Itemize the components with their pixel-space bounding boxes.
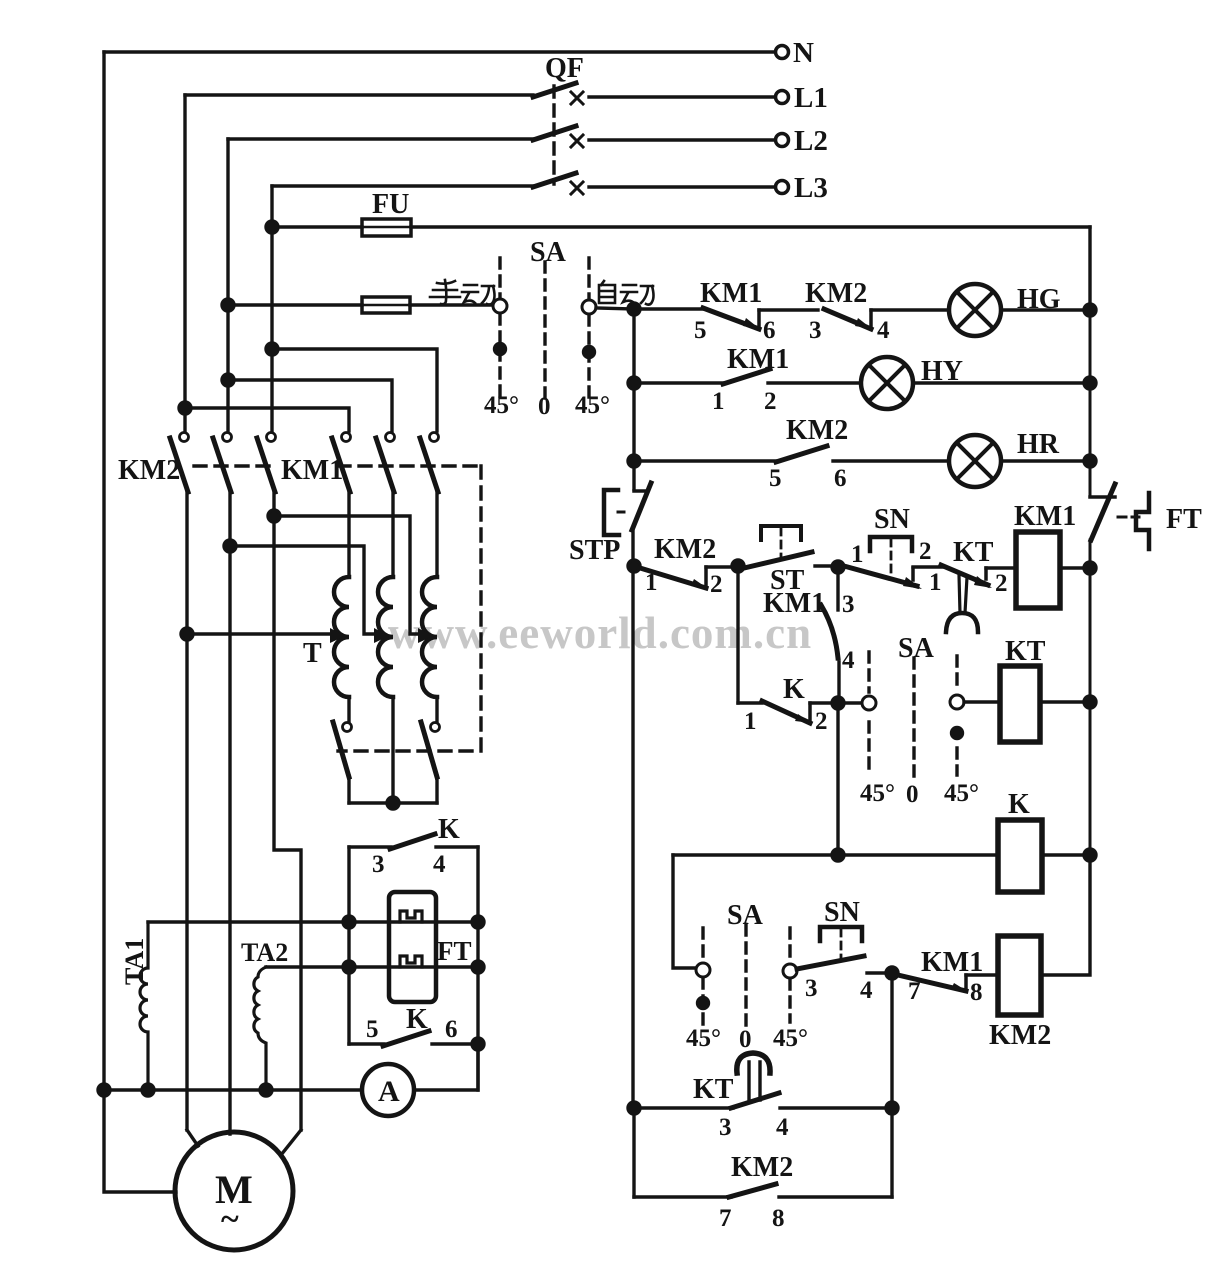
node SA row3 position dot [698,998,709,1009]
thermal relay FT heater block [389,892,436,1002]
contactor KM1 main pole c [430,433,439,442]
wire L3 horizontal right [589,185,776,188]
svg-text:1: 1 [929,569,942,596]
contactor KM2 main pole 1 [180,433,189,442]
wire tap C to coil1 with arrow [187,632,330,635]
svg-text:4: 4 [776,1114,789,1141]
svg-text:8: 8 [772,1205,785,1232]
star contact 2 [431,723,440,732]
wire L2 horizontal right [589,138,776,141]
svg-text:KM1: KM1 [763,588,825,619]
svg-text:www.eeworld.com.cn: www.eeworld.com.cn [388,608,812,658]
breaker QF linkage dashed [552,86,555,184]
selector SA row2 dashed right [955,656,958,775]
svg-text:SN: SN [874,504,910,535]
selector SA row2 left contact [862,696,876,710]
node TA2 bottom [260,1084,272,1096]
coil KT [1000,666,1040,742]
coil K [998,820,1042,892]
contact KM1 aux 3-4 vertical [836,567,839,610]
wire KM2 pole1 output vertical [185,491,188,1130]
selector SA dashed manual [498,258,501,398]
node L2 to fuse2 [222,299,234,311]
linkage dashed KM2-KM1 [194,464,481,467]
node L2 terminal [776,134,789,147]
selector SA dashed auto [587,258,590,398]
node tap wire C on phase1 [181,628,193,640]
star contact 1 [343,723,352,732]
wire coil1 bottom to star contact [347,697,350,722]
svg-text:HR: HR [1017,429,1060,460]
svg-text:KM1: KM1 [281,455,343,486]
svg-text:QF: QF [545,53,584,84]
selector SA row2 dashed centre [912,658,915,779]
svg-text:45°: 45° [484,392,519,419]
wire KM1 pole a to coil 1 [347,491,350,577]
contact K 1-2 row [738,701,762,704]
wire between KM1 5-6 and KM2 3-4 [759,308,818,311]
wire ST to SN junction [815,564,838,567]
svg-text:KM2: KM2 [989,1020,1051,1051]
selector SA row3 left contact [696,963,710,977]
contact KM2 aux 5-6 [776,446,827,462]
svg-text:KM2: KM2 [654,534,716,565]
svg-text:KT: KT [953,537,994,568]
wire HY to right rail [913,381,1090,384]
wire coil3 bottom to star contact [435,697,438,722]
wire KM2 pole3 output vertical [274,491,301,1130]
wire TA2 to FT heater row2 [266,965,478,968]
transformer T coil 1 [334,577,349,697]
coil KM2 [998,936,1041,1015]
svg-text:45°: 45° [944,780,979,807]
node tap wire A on phase3 [268,510,280,522]
breaker QF pole 2 [533,126,576,140]
wire branch L3 to KM1 pole c [272,349,437,431]
wire KT to KM1 coil [986,566,1016,569]
contact KM1 aux 1-2 [723,369,770,384]
contact KM1 aux 5-6 [703,308,759,329]
wire to lamp HG [871,308,949,311]
svg-text:FU: FU [372,189,409,220]
svg-text:6: 6 [834,465,847,492]
node HG right rail [1084,304,1096,316]
breaker QF pole 3 [533,173,576,187]
svg-text:3: 3 [805,975,818,1002]
linkage dashed box right side [338,466,481,751]
wire coil2 bottom to bar [391,697,394,803]
selector SA row2 right contact [950,695,964,709]
node heater row2 left [343,961,355,973]
wire phase3 into motor [281,1130,301,1155]
node row3 on control bus [628,455,640,467]
contact KT 1-2 delayed NO [941,565,988,585]
svg-text:STP: STP [569,535,620,566]
wire fuse2 row [228,303,492,306]
wire HR to right rail [1001,459,1090,462]
wire TA1 to FT heater row1 [148,920,478,923]
node L3 to FU rail [266,221,278,233]
wire SN to KT contact [913,565,944,568]
wire N top horizontal [104,50,776,53]
node tap wire B on phase2 [224,540,236,552]
svg-text:KM1: KM1 [727,344,789,375]
wire star contact2 to bar [435,776,438,803]
wire L1 horizontal left [185,93,533,96]
contact KM1 aux 7-8 [898,975,966,991]
selector SA row3 dashed centre [744,925,747,1028]
motor M [175,1132,293,1250]
svg-text:SA: SA [530,237,567,268]
svg-text:7: 7 [908,978,921,1005]
svg-text:L1: L1 [794,82,828,114]
svg-text:N: N [793,37,814,69]
limit switch SN actuator row3 [820,927,862,941]
wire junction to SA row2 left contact [838,701,862,704]
wire KT row right down [890,1108,893,1197]
svg-text:K: K [438,814,460,845]
svg-text:KM1: KM1 [1014,501,1076,532]
node heater row1 right [472,916,484,928]
svg-text:2: 2 [710,571,723,598]
svg-text:0: 0 [538,393,551,420]
svg-text:6: 6 [445,1016,458,1043]
contact SN 1-2 blade [844,566,917,586]
svg-text:6: 6 [763,317,776,344]
svg-text:K: K [406,1004,428,1035]
svg-text:KT: KT [693,1074,734,1105]
coil KM1 [1016,532,1060,608]
node star point [387,797,399,809]
breaker QF pole 1 [533,83,576,97]
wire L2 horizontal left [228,137,533,140]
svg-text:KM1: KM1 [700,278,762,309]
svg-text:3: 3 [842,591,855,618]
wire HG to right rail [1001,308,1090,311]
svg-text:4: 4 [860,977,873,1004]
node TA1 bottom [142,1084,154,1096]
wire to lamp HR [833,459,949,462]
wire KM2 pole2 output vertical [228,491,231,1134]
svg-text:1: 1 [851,541,864,568]
KT delay device symbol [959,575,967,613]
contactor KM2 main pole 3 [267,433,276,442]
node row2 on control bus [628,377,640,389]
wire L1 horizontal right [589,95,776,98]
FT heater actuator [1136,493,1149,549]
svg-text:1: 1 [712,388,725,415]
svg-text:KT: KT [1005,636,1046,667]
svg-text:1: 1 [645,569,658,596]
wire auto contact to control bus [596,308,634,309]
svg-text:4: 4 [842,647,855,674]
wire branch L1 to KM1 pole a [185,408,349,431]
wire KM2 coil to right rail corner [1041,855,1090,975]
node N terminal [776,46,789,59]
wire K row down to SA row3 [673,855,696,968]
wire KM1 7-8 to KM2 coil [966,973,998,976]
svg-text:4: 4 [433,851,446,878]
wire N bus left vertical [102,52,105,1090]
svg-text:5: 5 [694,317,707,344]
wire KT coil to right rail [1040,700,1090,703]
contact K 5-6 row [349,1042,384,1045]
selector SA row2 dashed left [867,652,870,776]
fuse FU2 [362,297,410,313]
wire FU rail [272,225,1090,228]
svg-text:4: 4 [877,317,890,344]
wire tap B to coil2 with arrow [230,546,374,634]
svg-text:45°: 45° [773,1025,808,1052]
wire KM1 pole c to coil 3 [435,491,438,577]
wire branch L2 to KM1 pole b [228,380,392,431]
svg-text:T: T [303,638,322,669]
contact KM2 aux 1-2 [640,568,706,588]
wire row1 to KM1 aux 5-6 [634,307,703,310]
svg-text:5: 5 [769,465,782,492]
contact KM2 aux 7-8 row [634,1195,731,1198]
current transformer TA2 [254,967,266,1090]
contactor KM1 main pole a [342,433,351,442]
wire K4 right vertical rail [476,847,479,1090]
lamp HG [949,284,1001,336]
wire ammeter loop bottom [104,1044,478,1090]
svg-text:FT: FT [1166,504,1202,535]
node KM1 7-8 left [886,967,898,979]
wire L2 bus vertical [226,139,229,431]
node heater row1 left [343,916,355,928]
wire row3 to KM2 aux 5-6 [634,459,776,462]
node control bus top [628,303,640,315]
svg-text:~: ~ [221,1201,239,1238]
wire right rail below FT [1089,310,1092,975]
node control bus KT row [628,1102,640,1114]
node SA manual position dot [495,344,506,355]
wire L1 bus vertical [183,95,186,431]
node SA auto position dot [584,347,595,358]
wire KM1 7-8 node down to KT 3-4 row [890,973,893,1108]
wire KM1 pole b to coil 2 [391,491,394,577]
svg-text:L3: L3 [794,172,828,204]
current transformer TA1 [140,922,148,1090]
node K5-6 right [472,1038,484,1050]
node heater row2 right [472,961,484,973]
svg-text:SN: SN [824,897,860,928]
contactor KM2 main pole 2 [223,433,232,442]
node KT row right [886,1102,898,1114]
node SA row2 position dot [952,728,963,739]
node L2 branch to KM1 pole b [222,374,234,386]
node SN left junction [832,561,844,573]
svg-text:FT: FT [437,936,472,966]
svg-text:45°: 45° [575,392,610,419]
label zi-dong (auto) glyphs [599,281,654,305]
button ST start NO [761,526,801,540]
svg-text:TA1: TA1 [120,938,149,985]
svg-text:0: 0 [739,1026,752,1053]
transformer T coil 3 [422,577,437,697]
contact SN row3 blade [797,956,864,969]
node KM1 coil right rail [1084,562,1096,574]
node K coil row centre [832,849,844,861]
wire control bus to KM2 7-8 row [632,1108,635,1197]
contact K 3-4 row [349,845,391,848]
node HY right rail [1084,377,1096,389]
node N bus bottom [98,1084,110,1096]
node KT coil right rail [1084,696,1096,708]
svg-text:5: 5 [366,1016,379,1043]
svg-text:2: 2 [815,708,828,735]
transformer T coil 2 [378,577,393,697]
svg-text:7: 7 [719,1205,732,1232]
wire SA row2 to KT coil [964,700,1000,703]
svg-text:KM2: KM2 [731,1152,793,1183]
thermal relay FT contact NC [1090,495,1115,499]
svg-text:KM2: KM2 [118,455,180,486]
wire L3 horizontal left [272,184,533,187]
wire row2 to KM1 aux 1-2 [634,381,723,384]
svg-text:2: 2 [995,570,1008,597]
wire tap A to coil3 with arrow [274,516,418,634]
node K/KM1/KT junction [832,697,844,709]
node ST left junction [732,560,744,572]
selector SA row3 right contact [783,964,797,978]
svg-text:3: 3 [719,1114,732,1141]
wire star contact1 to bar [347,776,350,803]
svg-text:0: 0 [906,781,919,808]
svg-text:3: 3 [809,317,822,344]
label shou-dong (manual) glyphs [430,280,495,305]
node HR right rail [1084,455,1096,467]
svg-text:L2: L2 [794,125,828,157]
svg-text:8: 8 [970,979,983,1006]
node STP row junction [628,560,640,572]
selector SA row3 dashed right [788,928,791,1022]
fuse FU1 [362,219,411,236]
wire phase1 into motor [187,1130,198,1146]
wire control bus left vertical [633,309,634,1108]
ammeter A [362,1064,414,1116]
selector SA dashed centre [543,262,546,398]
wire KT junction down to K coil row [836,703,839,855]
contact KT 3-4 delayed row [634,1106,733,1109]
svg-text:A: A [378,1075,400,1108]
wire SN row3 to KM1 7-8 [867,971,892,974]
svg-text:SA: SA [898,633,935,664]
node K coil right rail [1084,849,1096,861]
wire K coil row [673,853,998,856]
wire L3 bus vertical [270,186,273,431]
svg-text:45°: 45° [860,780,895,807]
svg-text:K: K [783,674,805,705]
node L3 branch to KM1 pole c [266,343,278,355]
contact KM2 aux 3-4 [824,309,871,329]
wire right control rail top [1088,227,1091,310]
svg-text:45°: 45° [686,1025,721,1052]
button STP stop NC [604,490,619,535]
selector SA row3 dashed left [701,928,704,1026]
wire star point bar [349,801,437,804]
selector SA contact auto (zi-dong) [582,300,596,314]
wire K3 left vertical [347,847,350,1044]
wire N to motor [104,1090,176,1192]
lamp HY [861,357,913,409]
wire KM1 coil to right rail [1060,566,1090,569]
svg-text:TA2: TA2 [241,938,288,967]
svg-text:K: K [1008,789,1030,820]
lamp HR [949,435,1001,487]
wire ST junction down to K 1-2 [736,566,739,703]
limit switch SN actuator row1 [870,537,912,551]
wire KM2 1-2 to ST junction [706,565,738,568]
wire K coil to right rail [1042,853,1090,856]
contactor KM1 main pole b [386,433,395,442]
node L1 branch to KM1 pole a [179,402,191,414]
selector SA contact manual (shou-dong) [493,299,507,313]
svg-text:2: 2 [764,388,777,415]
FT heater element 1 [400,911,422,922]
svg-text:KM2: KM2 [805,278,867,309]
FT heater element 2 [400,956,422,967]
svg-text:2: 2 [919,538,932,565]
node L3 terminal [776,181,789,194]
svg-text:KM2: KM2 [786,415,848,446]
svg-text:1: 1 [744,708,757,735]
node L1 terminal [776,91,789,104]
KT row delay device symbol [749,1062,760,1100]
wire to lamp HY [768,381,861,384]
svg-text:3: 3 [372,851,385,878]
